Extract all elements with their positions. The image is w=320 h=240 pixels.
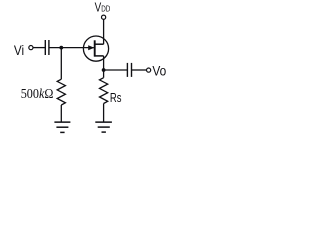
svg-text:Vi: Vi bbox=[14, 42, 24, 58]
wire source node to C2 bbox=[104, 69, 128, 71]
transistor Q1 channel bar bbox=[94, 40, 96, 56]
node VDD label bbox=[95, 0, 111, 15]
terminal VDD bbox=[102, 15, 106, 19]
terminal Vo bbox=[147, 68, 151, 72]
label 500kΩ value bbox=[21, 85, 54, 101]
transistor Q1 gate arrow bbox=[88, 45, 94, 50]
transistor Q1 drain stub bbox=[94, 43, 103, 45]
resistor Rs zigzag bbox=[100, 78, 108, 104]
junction dot gate node bbox=[59, 46, 63, 50]
label Rs bbox=[110, 92, 122, 106]
junction dot source node bbox=[102, 68, 106, 72]
wire Vi terminal to C1 bbox=[33, 47, 45, 49]
svg-text:VDD: VDD bbox=[95, 0, 111, 15]
terminal Vi bbox=[29, 46, 33, 50]
capacitor C1 plate 2 bbox=[48, 40, 50, 55]
capacitor C2 plate 2 bbox=[131, 63, 133, 77]
wire gate node to R1 bbox=[60, 48, 62, 80]
wire drain bbox=[103, 19, 105, 44]
wire C2 to Vo terminal bbox=[132, 69, 147, 71]
label Vi bbox=[14, 42, 24, 58]
svg-text:500kΩ: 500kΩ bbox=[21, 85, 54, 101]
resistor R1 zigzag bbox=[57, 79, 65, 105]
capacitor C2 plate 1 bbox=[126, 63, 128, 77]
transistor Q1 source stub bbox=[94, 55, 103, 57]
wire C1 to gate bbox=[49, 47, 94, 49]
wire source bbox=[103, 56, 105, 78]
transistor Q1 body circle bbox=[83, 36, 108, 61]
capacitor C1 plate 1 bbox=[44, 40, 46, 55]
wire Rs to ground bbox=[103, 104, 105, 122]
ground (source resistor) bbox=[95, 122, 112, 132]
svg-text:Rs: Rs bbox=[110, 92, 122, 106]
svg-text:Vo: Vo bbox=[152, 63, 166, 79]
ground (gate bias network) bbox=[54, 122, 70, 132]
label Vo bbox=[152, 63, 166, 79]
wire R1 to ground bbox=[60, 105, 62, 122]
